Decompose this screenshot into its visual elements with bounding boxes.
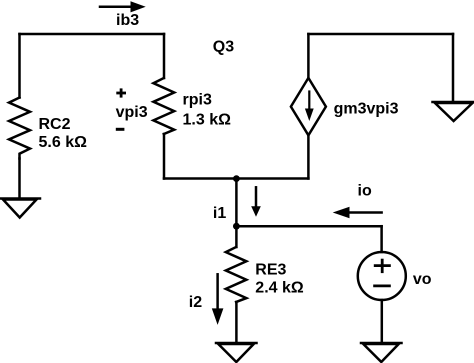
- label minus vpi3: [116, 128, 125, 131]
- svg-text:Q3: Q3: [213, 38, 234, 55]
- svg-text:1.3 kΩ: 1.3 kΩ: [183, 111, 232, 128]
- wire RE3 top stub: [235, 226, 238, 247]
- ground GND4: [433, 102, 474, 121]
- wire diamond bottom vertical: [307, 135, 310, 178]
- svg-text:io: io: [358, 182, 372, 199]
- arrow ib3: [100, 1, 146, 12]
- wire right vertical: [452, 34, 455, 102]
- svg-text:vo: vo: [413, 271, 432, 288]
- svg-text:i1: i1: [213, 205, 226, 222]
- svg-text:vpi3: vpi3: [116, 104, 148, 121]
- svg-text:RE3: RE3: [255, 261, 286, 278]
- wire i1 vertical: [235, 179, 238, 227]
- resistor rpi3: [153, 78, 174, 134]
- wire node2 horizontal: [236, 225, 381, 228]
- node dot junction 2: [233, 223, 240, 230]
- resistor RC2: [9, 98, 30, 159]
- wire diamond top vertical: [307, 34, 310, 78]
- wire top-right horizontal: [308, 33, 453, 36]
- svg-text:ib3: ib3: [116, 12, 139, 29]
- svg-text:5.6 kΩ: 5.6 kΩ: [39, 134, 88, 151]
- label vo minus: [373, 284, 391, 287]
- wire left vertical: [18, 34, 21, 98]
- node dot junction 1: [233, 175, 240, 182]
- dependent source gm3vpi3: [291, 78, 326, 135]
- source vo: [358, 252, 406, 300]
- ground GND2: [216, 343, 257, 362]
- wire vo to ground: [381, 300, 384, 343]
- svg-text:RC2: RC2: [39, 116, 71, 133]
- svg-text:i2: i2: [189, 294, 202, 311]
- arrow inside gm3vpi3: [305, 92, 314, 122]
- wire RC2 to ground: [18, 159, 21, 199]
- wire vo top vertical: [380, 226, 383, 252]
- wire rpi3 top vertical: [163, 34, 166, 78]
- arrow i2: [212, 274, 224, 325]
- arrow i1: [251, 187, 261, 216]
- ground GND1: [0, 199, 40, 218]
- wire RE3 to ground: [235, 302, 238, 343]
- wire node horizontal: [164, 177, 308, 180]
- ground GND3: [361, 343, 402, 362]
- label plus vpi3: [116, 88, 126, 97]
- svg-text:2.4 kΩ: 2.4 kΩ: [255, 279, 304, 296]
- svg-text:rpi3: rpi3: [183, 92, 212, 109]
- resistor RE3: [226, 247, 247, 302]
- arrow io: [333, 207, 382, 219]
- wire top-left horizontal: [20, 33, 165, 36]
- wire rpi3 bottom vertical: [163, 134, 166, 179]
- label vo plus: [374, 259, 391, 273]
- svg-text:gm3vpi3: gm3vpi3: [334, 100, 399, 117]
